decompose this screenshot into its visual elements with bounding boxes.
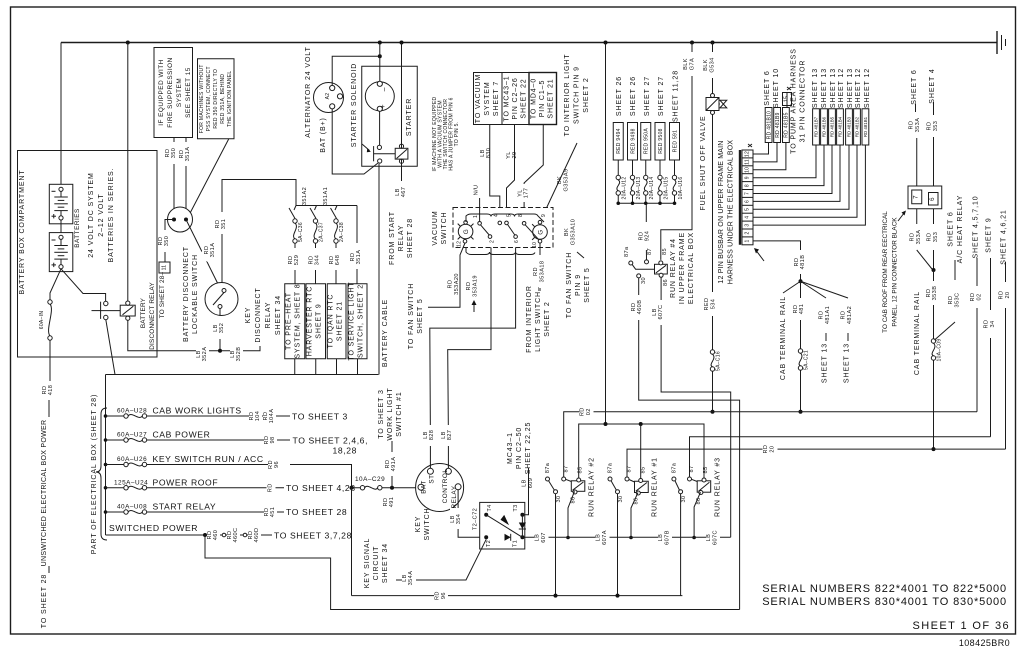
STARTER_AREA [305,43,417,375]
svg-text:SHEET 21: SHEET 21 [548,78,555,118]
brace [96,408,107,540]
svg-text:TO SHEET 3: TO SHEET 3 [378,389,385,439]
svg-text:SHEET 13: SHEET 13 [847,68,854,108]
node LB352 junction [218,349,222,353]
wire RD353B down [933,270,935,339]
svg-text:TO INTERIOR LIGHT: TO INTERIOR LIGHT [564,54,571,137]
wire LB 352 down [219,309,221,351]
wire LB830 [490,125,500,222]
svg-text:7: 7 [913,195,920,199]
svg-text:2: 2 [490,240,496,243]
wire rail to coil [401,43,403,149]
wire YL29 [507,125,515,222]
fuse 5A-C16 [710,350,714,354]
svg-text:6: 6 [929,197,936,201]
svg-text:85: 85 [641,466,647,473]
svg-text:SHEET 22,25: SHEET 22,25 [525,422,532,475]
label RD 353A18 [533,255,547,288]
svg-text:RUN RELAY #3: RUN RELAY #3 [715,457,722,517]
svg-text:RD: RD [841,311,847,320]
svg-text:T2: T2 [486,540,492,547]
wire 7 down [916,209,918,224]
svg-text:SHEET 13: SHEET 13 [830,68,837,108]
svg-text:SHEET 4: SHEET 4 [929,68,936,103]
battery box compartment outline [18,151,158,358]
svg-text:IN UPPER FRAME: IN UPPER FRAME [679,232,686,304]
svg-text:G353A9: G353A9 [564,169,570,192]
wirebox RED 9494 [613,123,623,161]
svg-text:TO VACUUM: TO VACUUM [475,74,482,123]
svg-text:87: 87 [564,465,570,472]
wire RD491A up [391,476,393,488]
svg-text:LB: LB [706,534,712,542]
wire RD481 down [800,281,802,349]
blade 1-2 [481,225,490,235]
node junction rail x128 [126,41,130,45]
svg-text:924: 924 [645,231,651,242]
BUSBAR_AREA [718,48,871,414]
label RD 460C [227,524,240,547]
node RD491 junction [390,486,394,490]
svg-text:T4: T4 [487,504,493,511]
svg-text:RED 9498: RED 9498 [630,128,636,153]
alternator circle [314,83,344,113]
svg-text:2A–C37: 2A–C37 [319,222,325,242]
svg-text:G: G [538,229,545,234]
svg-text:BATTERIES: BATTERIES [74,208,81,248]
svg-text:RED 9508: RED 9508 [658,128,664,153]
svg-text:KEY: KEY [245,307,252,324]
wire cell6 [753,145,840,201]
svg-text:5A–C36: 5A–C36 [298,222,304,242]
wire RD 350 from fire box [173,138,175,220]
svg-text:SYSTEM, SHEET 8: SYSTEM, SHEET 8 [295,283,302,358]
wire line RD20 [627,449,1006,476]
svg-text:RD 481B2: RD 481B2 [855,116,860,137]
svg-text:460C: 460C [233,528,239,543]
wire main battery vertical [605,43,607,425]
svg-text:30: 30 [641,277,647,284]
svg-text:RD: RD [763,445,769,454]
label RD 351A [350,243,363,269]
svg-text:20A–U15: 20A–U15 [663,177,669,200]
svg-text:BATTERY DISCONNECT: BATTERY DISCONNECT [183,246,190,342]
svg-text:RD: RD [267,483,273,492]
svg-text:RED 350 DIRECTLY TO: RED 350 DIRECTLY TO [213,69,219,129]
wire alternator bottom to starter [332,109,378,174]
node T4 [484,513,488,517]
BOTTOM_TEXT [762,583,1010,648]
wire main positive rail [61,42,997,44]
wire fuse bus vertical [105,375,107,536]
svg-text:T1: T1 [513,540,519,547]
wire 86 to LB607 [568,491,575,537]
svg-text:SHEET 13: SHEET 13 [822,343,829,383]
wire 86 to LB607C [661,277,731,537]
svg-text:104A: 104A [269,409,275,424]
wire fuse3 to box3 [335,243,337,284]
wire RD924 down [645,203,647,222]
svg-text:SHEET 26: SHEET 26 [616,76,623,116]
svg-text:SHEET 11,28: SHEET 11,28 [673,70,680,122]
label RD 351A [180,142,193,166]
svg-text:6: 6 [745,200,751,203]
wire row5 out [147,511,284,513]
wire 30 RD460B [639,278,740,610]
svg-text:KEY: KEY [415,516,422,533]
wire cell4 [753,145,857,217]
label RD 96 [268,455,281,475]
connector box 7/6 [908,186,942,209]
wire 30 drop [680,494,682,596]
svg-text:351A: 351A [185,147,191,162]
svg-text:460B: 460B [637,300,643,315]
svg-text:6: 6 [514,240,520,243]
svg-text:RD 481B5: RD 481B5 [784,112,790,137]
svg-text:RD: RD [927,233,933,242]
label RD 353B [926,281,940,305]
svg-text:RELAY: RELAY [451,485,458,508]
svg-text:BK: BK [557,176,563,184]
svg-text:RD: RD [819,311,825,320]
svg-text:STARTER SOLENOID: STARTER SOLENOID [351,63,358,148]
svg-text:352: 352 [219,323,225,334]
node junction rail x712 [711,41,715,45]
svg-text:BLK: BLK [683,58,689,70]
wirebox RED 9498 [628,123,638,161]
svg-text:RD: RD [910,233,916,242]
pin 1 [478,222,482,226]
svg-text:RELAY: RELAY [265,302,272,329]
diode right [521,515,523,538]
svg-text:8: 8 [745,184,751,187]
svg-text:RD: RD [970,293,976,302]
svg-text:PIN C2–26: PIN C2–26 [512,77,519,119]
wire LB352A line [128,43,260,351]
wire RD481A1 branch [801,281,827,298]
node [932,447,936,451]
node row3/row4 junction [350,486,354,490]
pin 10 [538,239,542,243]
wire to line A [800,370,802,412]
label RD 460B [631,295,645,320]
svg-text:451: 451 [270,507,276,518]
svg-text:SHEET 12: SHEET 12 [855,68,862,108]
svg-text:G7A: G7A [690,58,696,70]
svg-text:RD: RD [580,407,586,416]
wire LB354 RELAY to diode block [458,490,480,538]
svg-text:TO PIN 5.: TO PIN 5. [454,122,460,147]
svg-text:418: 418 [48,385,54,396]
wire battery+ to disconnect relay [61,269,106,302]
svg-text:12: 12 [745,151,751,157]
wire [954,260,956,280]
label RD 451 [264,502,277,523]
box TO PRE-HEAT SYSTEM SHEET 8 [285,284,305,359]
key switch circle [416,464,464,512]
svg-text:98: 98 [270,436,276,443]
svg-text:KEY SWITCH RUN / ACC: KEY SWITCH RUN / ACC [153,454,264,464]
svg-text:RUN RELAY #1: RUN RELAY #1 [652,457,659,517]
svg-text:SHEET 12: SHEET 12 [864,68,871,108]
svg-text:TO PUMP AREA HARNESS: TO PUMP AREA HARNESS [791,48,798,154]
fuse 5A-C21 [798,349,802,353]
svg-text:PIN C2–50: PIN C2–50 [516,427,523,469]
wire line B coils [579,424,704,481]
svg-text:TO CAB ROOF FROM REAR EECTRICA: TO CAB ROOF FROM REAR EECTRICAL [882,211,889,333]
arrow to busbar [755,249,764,261]
svg-text:SHEET 13: SHEET 13 [821,68,828,108]
svg-text:TO SHEET 28: TO SHEET 28 [286,507,347,517]
fuse 60A-U28 [106,415,124,417]
wirebox RED 950A [641,123,651,161]
svg-text:LB: LB [522,479,528,487]
wire row6 [106,534,273,536]
svg-text:SYSTEM: SYSTEM [484,81,491,115]
label LB 607C [706,526,720,550]
svg-text:2–12 VOLT: 2–12 VOLT [98,193,105,236]
wire row3 out to drop [147,464,277,466]
svg-text:TO SHEET 4,28: TO SHEET 4,28 [286,483,356,493]
svg-text:10: 10 [745,167,751,173]
svg-text:TO SERVICE LIGHT: TO SERVICE LIGHT [349,281,356,360]
wire switched power routing [205,535,740,610]
svg-text:SHEET 10: SHEET 10 [773,68,780,108]
wire LB827 CONTROL [448,241,491,468]
svg-text:RED 351A, BEHIND: RED 351A, BEHIND [220,74,226,124]
RIGHT_AREA [882,68,1011,451]
starter solenoid circle [365,82,394,111]
svg-text:351A: 351A [356,250,362,265]
svg-text:G534: G534 [710,57,716,72]
svg-text:HARNESS UNDER THE ELECTRICAL B: HARNESS UNDER THE ELECTRICAL BOX [728,140,735,285]
label RD 351A [199,234,223,264]
wire cell12 [753,143,769,155]
wire BK G353A10 diagonal [577,252,584,258]
wirebox RD 481B9 [774,108,781,143]
label RD 460D [248,524,261,547]
node [616,594,620,598]
svg-text:87a: 87a [545,462,551,473]
node rail-battery corner [60,43,62,186]
svg-text:SERIAL NUMBERS 830*4001 TO 830: SERIAL NUMBERS 830*4001 TO 830*5000 [762,596,1007,608]
svg-text:LOCKABLE SWITCH: LOCKABLE SWITCH [192,254,199,334]
svg-text:20A–U13: 20A–U13 [636,177,642,200]
svg-text:CAB TERMINAL RAIL: CAB TERMINAL RAIL [780,296,787,380]
wire cell3 [753,145,865,225]
svg-text:SWITCH: SWITCH [441,211,448,244]
pin 87a [629,261,633,265]
ground [996,31,998,54]
svg-text:351A2: 351A2 [302,187,308,205]
svg-text:607C: 607C [658,305,664,320]
svg-text:31 PIN CONNECTOR: 31 PIN CONNECTOR [800,60,807,143]
svg-text:481A1: 481A1 [825,306,831,324]
svg-text:RD 481B9: RD 481B9 [775,112,781,137]
fuse 125A-U24 [106,487,124,489]
wirebox RD 481B5a [783,108,790,143]
connector box 15 [783,93,792,106]
svg-text:481A2: 481A2 [847,306,853,324]
svg-text:40A–U08: 40A–U08 [117,504,147,511]
svg-text:SHEET 9: SHEET 9 [316,303,323,338]
svg-text:DISCONNECT: DISCONNECT [255,287,262,342]
box TO MC43-1 PIN C2-26 SHEET 22 [502,73,529,125]
label LB 607C [652,300,666,325]
svg-text:LIGHT SWITCH–: LIGHT SWITCH– [535,286,542,352]
wire fuse2 to box2 [315,243,317,284]
svg-text:350: 350 [171,148,177,159]
wire cell5 [753,145,849,209]
svg-text:RED 950A: RED 950A [644,128,650,154]
svg-text:481B: 481B [800,255,806,270]
svg-text:SHEET 27: SHEET 27 [658,76,665,116]
blade [632,265,654,270]
FUSEROWS_AREA [91,375,740,610]
wirebox RD 481B4 [837,109,844,145]
wirebox RD 481B10 [765,108,772,143]
wire RD20 [1005,262,1007,282]
svg-text:4: 4 [745,216,751,219]
wire cell8 [753,145,824,186]
box FOR MACHINES WITHOUT PSS [198,59,235,139]
node T2 [484,535,488,539]
wire diagonal from FOR MACHINES box to switch [188,139,229,217]
wire armature to bus [106,320,115,375]
connector shell bottom [466,248,535,255]
svg-text:11: 11 [162,265,168,271]
svg-text:609: 609 [528,478,534,489]
svg-text:POWER ROOF: POWER ROOF [153,477,219,487]
svg-text:60A–U27: 60A–U27 [117,432,147,439]
svg-text:UNSWITCHED ELECTRICAL BOX POWE: UNSWITCHED ELECTRICAL BOX POWER [41,420,48,567]
wire LB607 line [522,536,730,538]
svg-text:354A: 354A [408,571,414,586]
label BLK G534 [703,52,717,78]
fuse 60A-U26 [106,464,124,466]
svg-text:20A–U12: 20A–U12 [622,177,628,200]
fuse 60A-U27 [106,439,124,441]
wire cell9 [753,145,816,178]
svg-text:CAB TERMINAL RAIL: CAB TERMINAL RAIL [914,291,921,375]
label RD 104A [263,404,276,428]
svg-text:WORK LIGHT: WORK LIGHT [387,387,394,440]
svg-text:RD: RD [927,122,933,131]
fuse 2A-C37 [313,219,317,223]
svg-text:PSS SYSTEM, CONNECT: PSS SYSTEM, CONNECT [206,66,212,131]
svg-text:30: 30 [556,495,562,502]
svg-text:85: 85 [703,466,709,473]
svg-text:BK: BK [564,228,570,236]
svg-text:87a: 87a [608,462,614,473]
svg-text:TO SHEET 28–: TO SHEET 28– [159,271,166,318]
svg-text:SWITCH, SHEET 2: SWITCH, SHEET 2 [358,284,365,358]
box IF EQUIPPED WITH FIRE SUPPRESSION [154,48,193,138]
fuse 60A-IN [48,300,52,304]
svg-text:SHEET 34: SHEET 34 [275,295,282,335]
svg-text:BATTERY BOX COMPARTMENT: BATTERY BOX COMPARTMENT [19,169,26,294]
node row1 [104,414,108,418]
svg-text:10A–C09: 10A–C09 [937,339,943,362]
svg-text:BATTERY CABLE: BATTERY CABLE [382,299,389,367]
svg-text:SHEET 5: SHEET 5 [584,267,591,302]
svg-text:SHEET 34: SHEET 34 [382,543,389,583]
svg-text:RD: RD [909,121,915,130]
svg-text:VACUUM: VACUUM [432,210,439,245]
svg-text:1: 1 [745,239,751,242]
wirebox RED 591 [670,123,680,161]
wire row4 out [147,487,284,489]
svg-text:30: 30 [618,495,624,502]
svg-text:353A: 353A [915,118,921,133]
fuse 5A-C36 [293,219,297,223]
node junction rail x605 [604,41,608,45]
mark H [748,144,752,147]
fuse 20A-U15 [659,160,661,175]
wire box2 stub [315,359,317,375]
svg-text:87: 87 [647,248,653,255]
svg-text:34: 34 [990,320,996,327]
lockable switch circle [168,207,193,232]
label RD 104 [249,406,262,426]
wire fuse1 to box1 [294,243,296,284]
svg-text:SHEET 13: SHEET 13 [812,68,819,108]
svg-text:SHEET 28: SHEET 28 [407,218,414,258]
svg-text:START RELAY: START RELAY [153,502,217,512]
box HARVESTER RTC SHEET 9 [306,284,326,359]
relay RUN RELAY #2 [546,477,550,481]
wire [933,102,935,115]
svg-text:30: 30 [681,495,687,502]
fuse 10A-C29 [360,486,364,490]
svg-text:CIRCUIT: CIRCUIT [373,546,380,581]
svg-text:RD 481B10: RD 481B10 [766,111,772,140]
svg-text:–: – [381,87,388,92]
svg-text:TO SHEET 3,7,28: TO SHEET 3,7,28 [274,531,352,541]
svg-text:SHEET 2: SHEET 2 [583,77,590,112]
relay RUN RELAY #3 [672,477,676,481]
wirebox RD 481B7 [813,109,820,145]
svg-text:352B: 352B [236,347,242,362]
svg-text:RD: RD [466,282,472,291]
wirebox RED 9508 [655,123,665,161]
svg-text:SHEET 6: SHEET 6 [911,69,918,104]
battery B1 [49,184,73,224]
pin 87 [645,260,649,264]
node row3 [104,463,108,467]
svg-text:SHEET 7: SHEET 7 [493,81,500,116]
svg-text:SHEET 2: SHEET 2 [544,301,551,336]
wire rail to solenoid [379,43,381,82]
fuse 40A-U08 [106,511,124,513]
pin 4 [498,221,502,225]
diode bottom [505,534,511,541]
wire solenoid to contact [379,111,381,145]
fuse 20A-U12 [617,160,619,175]
label RD 648 [329,248,342,270]
svg-text:85: 85 [578,466,584,473]
svg-text:491: 491 [389,497,395,508]
svg-text:FROM INTERIOR: FROM INTERIOR [526,285,533,353]
svg-text:RD: RD [948,296,954,305]
wire cell1 RD481B [753,241,801,281]
svg-text:354: 354 [456,514,462,525]
svg-text:CONTROL: CONTROL [442,469,449,504]
svg-text:2: 2 [745,231,751,234]
svg-text:RD 481B1: RD 481B1 [863,116,868,137]
pin 5 [505,221,509,225]
svg-text:351A1: 351A1 [323,187,329,205]
